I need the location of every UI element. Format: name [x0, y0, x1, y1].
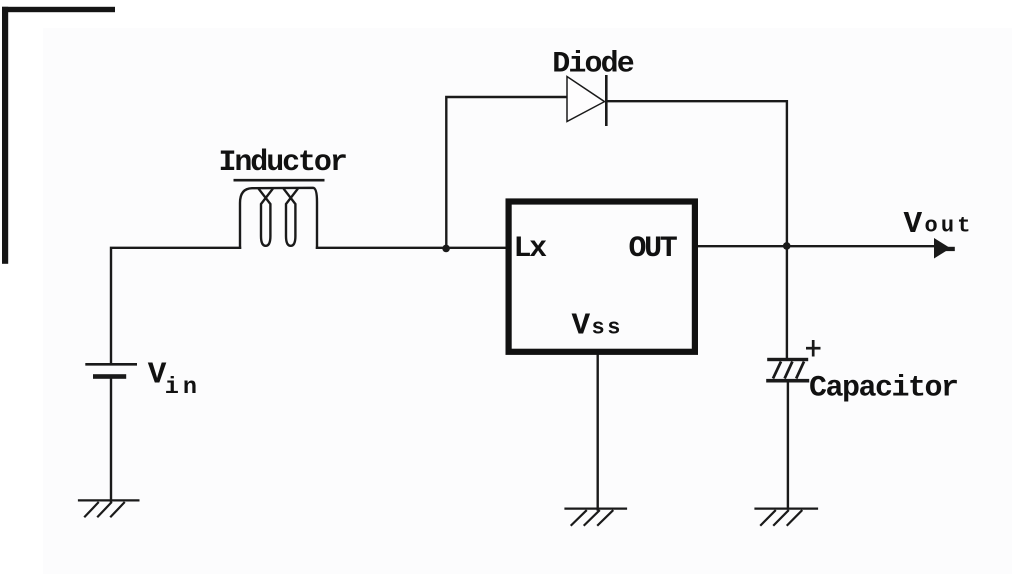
- svg-text:Capacitor: Capacitor: [809, 372, 958, 406]
- svg-text:Diode: Diode: [552, 48, 633, 82]
- svg-text:in: in: [165, 374, 201, 401]
- svg-text:V: V: [572, 309, 591, 344]
- svg-text:V: V: [904, 207, 923, 242]
- svg-text:Lx: Lx: [514, 232, 548, 266]
- svg-text:Inductor: Inductor: [219, 146, 346, 180]
- svg-text:out: out: [925, 214, 974, 239]
- svg-text:OUT: OUT: [629, 232, 678, 266]
- svg-text:ss: ss: [592, 316, 624, 341]
